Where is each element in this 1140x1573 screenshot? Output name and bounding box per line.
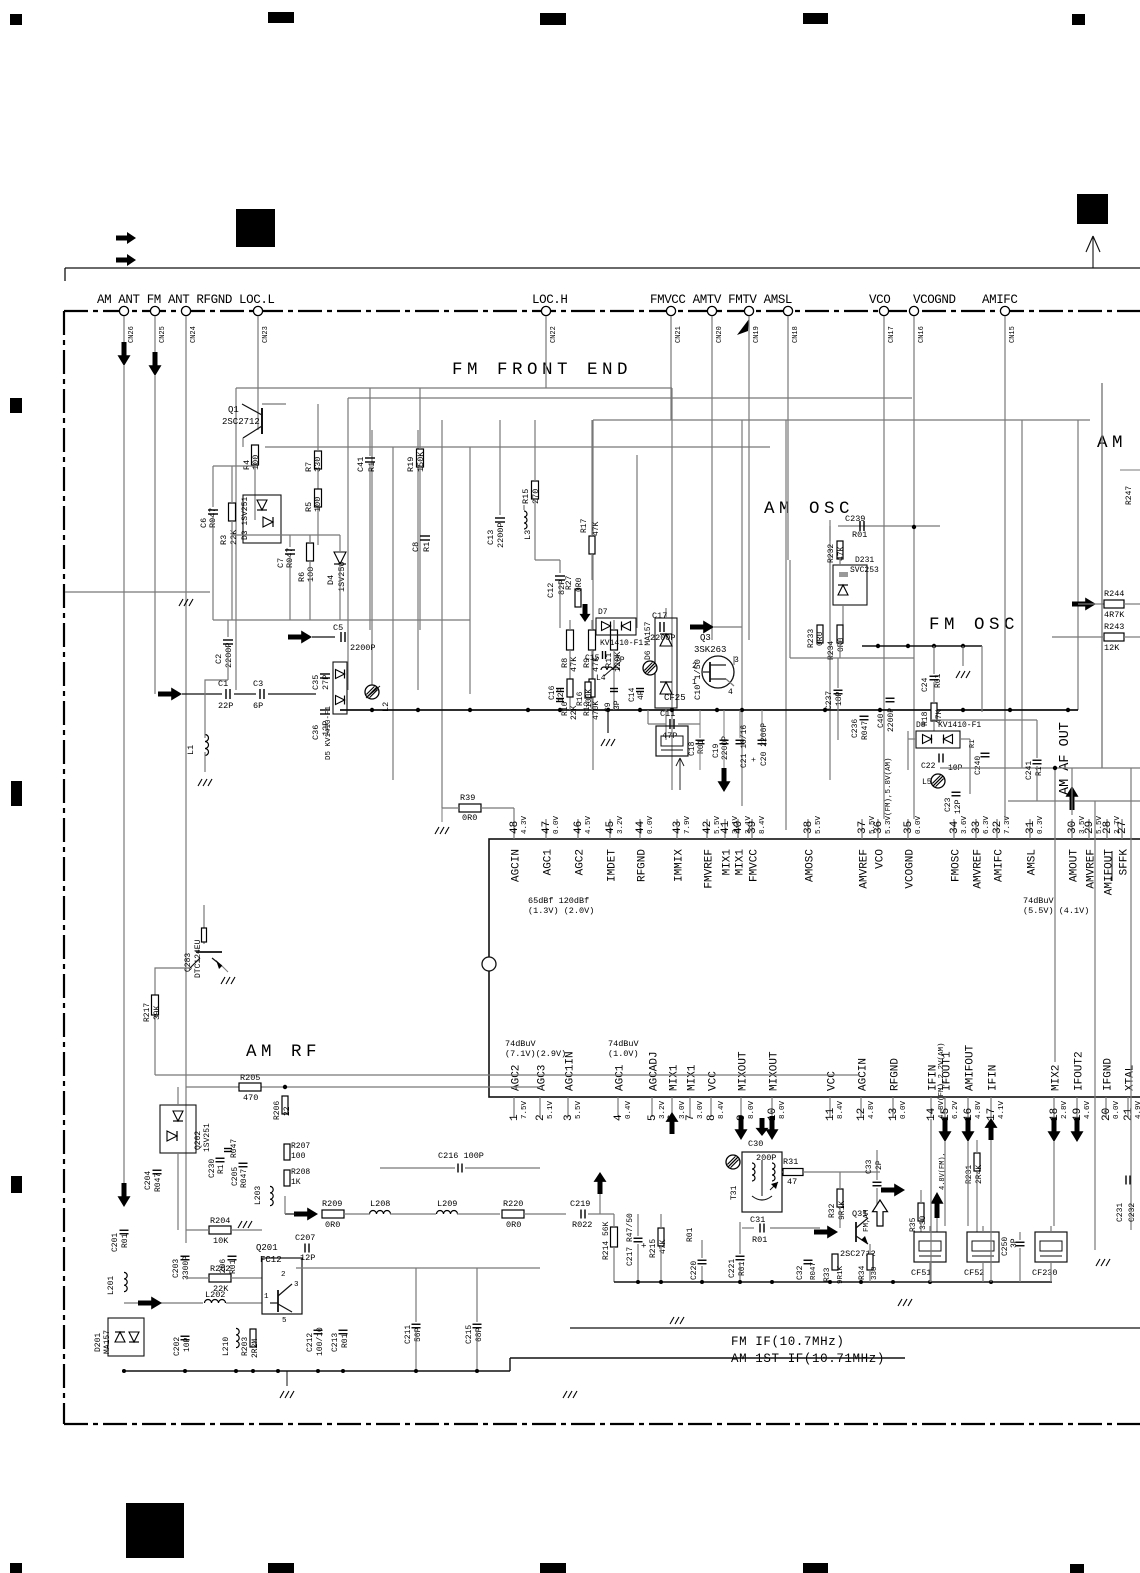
svg-text:C211: C211 — [404, 1325, 413, 1344]
svg-text:C31: C31 — [750, 1215, 765, 1225]
svg-text:C237: C237 — [825, 691, 834, 710]
svg-text:13: 13 — [888, 1108, 900, 1121]
svg-text:R1: R1 — [1035, 766, 1044, 776]
svg-text:C202: C202 — [173, 1337, 182, 1356]
svg-text:C231: C231 — [1116, 1203, 1125, 1222]
svg-text:L202: L202 — [205, 1290, 225, 1300]
svg-text:AMVREF: AMVREF — [1086, 849, 1098, 889]
svg-text:VCOGND: VCOGND — [913, 293, 956, 307]
svg-text:MIX1: MIX1 — [722, 849, 734, 876]
svg-text:L209: L209 — [437, 1199, 457, 1209]
svg-text:2200P: 2200P — [650, 633, 676, 643]
svg-text:28: 28 — [1102, 821, 1114, 834]
svg-text:AGCIN: AGCIN — [511, 849, 523, 882]
svg-text:T31: T31 — [730, 1185, 739, 1200]
svg-text:470: 470 — [243, 1093, 258, 1103]
svg-text:(7.1V)(2.9V): (7.1V)(2.9V) — [505, 1049, 566, 1059]
svg-text:4.6V: 4.6V — [1084, 1100, 1092, 1119]
svg-text:3SK263: 3SK263 — [694, 645, 726, 655]
svg-text:(1.3V) (2.0V): (1.3V) (2.0V) — [528, 906, 594, 916]
svg-text:3.2V: 3.2V — [617, 815, 625, 834]
svg-text:C3: C3 — [253, 679, 263, 689]
svg-text:C204: C204 — [144, 1171, 153, 1190]
svg-text:32: 32 — [992, 821, 1004, 834]
svg-text:47K: 47K — [837, 546, 846, 561]
svg-text:35: 35 — [903, 821, 915, 834]
svg-text:C24: C24 — [921, 677, 930, 692]
svg-text:11: 11 — [825, 1107, 837, 1121]
svg-text:C21 10/16: C21 10/16 — [740, 725, 749, 768]
svg-text:4.3V: 4.3V — [521, 815, 529, 834]
svg-text:L208: L208 — [370, 1199, 390, 1209]
svg-text:8.0V: 8.0V — [748, 1100, 756, 1119]
svg-text:R01: R01 — [697, 739, 706, 754]
svg-text:FMVCC: FMVCC — [749, 849, 761, 882]
svg-text:1: 1 — [692, 678, 697, 687]
svg-text:5.3V(FM),5.8V(AM): 5.3V(FM),5.8V(AM) — [885, 757, 893, 834]
svg-text:47K: 47K — [592, 521, 601, 536]
svg-text:CF51: CF51 — [911, 1268, 931, 1278]
svg-text:0.3V: 0.3V — [1037, 815, 1045, 834]
svg-text:18P: 18P — [835, 691, 844, 706]
svg-text:D3 1SV251: D3 1SV251 — [241, 497, 250, 540]
svg-text:L3: L3 — [523, 530, 533, 540]
svg-text:R01: R01 — [852, 530, 867, 540]
svg-text:R01: R01 — [686, 1227, 695, 1242]
svg-text:R214 56K: R214 56K — [602, 1221, 611, 1260]
svg-text:C41: C41 — [356, 457, 366, 472]
svg-text:IMMIX: IMMIX — [674, 849, 686, 882]
svg-text:C40: C40 — [877, 713, 886, 728]
svg-text:VCC: VCC — [708, 1071, 720, 1091]
svg-text:5.1V: 5.1V — [547, 1100, 555, 1119]
svg-text:7P: 7P — [615, 656, 625, 665]
svg-text:1: 1 — [509, 1114, 521, 1121]
svg-text:R202: R202 — [210, 1264, 230, 1274]
svg-text:C30: C30 — [748, 1139, 763, 1149]
svg-text:R209: R209 — [322, 1199, 342, 1209]
svg-text:30: 30 — [1067, 821, 1079, 834]
svg-text:8.4V: 8.4V — [837, 1100, 845, 1119]
svg-text:47: 47 — [787, 1177, 797, 1187]
svg-text:R047: R047 — [240, 1169, 249, 1188]
svg-text:3: 3 — [563, 1114, 575, 1121]
svg-text:C19: C19 — [712, 743, 721, 758]
svg-text:IFIN: IFIN — [988, 1065, 1000, 1091]
svg-text:0R0: 0R0 — [837, 637, 846, 652]
svg-text:8: 8 — [706, 1114, 718, 1121]
svg-text:AMSL: AMSL — [1027, 849, 1039, 875]
svg-text:65dBf 120dBf: 65dBf 120dBf — [528, 896, 589, 906]
svg-text:3P: 3P — [613, 700, 622, 710]
svg-text:2200P: 2200P — [224, 642, 234, 668]
svg-text:2200P: 2200P — [887, 708, 896, 732]
svg-text:2P: 2P — [875, 1160, 884, 1170]
svg-text:C215: C215 — [465, 1325, 474, 1344]
svg-text:R206: R206 — [273, 1101, 282, 1120]
svg-text:4.9V: 4.9V — [1135, 1100, 1140, 1119]
svg-text:L203: L203 — [254, 1186, 263, 1205]
svg-text:2.8V: 2.8V — [1061, 1100, 1069, 1119]
svg-text:C2: C2 — [214, 654, 224, 664]
svg-text:27P: 27P — [321, 675, 331, 690]
svg-text:C230: C230 — [208, 1159, 217, 1178]
svg-text:Q202: Q202 — [194, 1131, 203, 1150]
svg-text:MIX1: MIX1 — [735, 849, 747, 876]
svg-text:AM AF OUT: AM AF OUT — [1058, 722, 1073, 795]
svg-text:IFGND: IFGND — [1103, 1058, 1115, 1091]
svg-text:17: 17 — [986, 1108, 998, 1121]
svg-text:56P: 56P — [414, 1327, 423, 1342]
svg-text:D4: D4 — [326, 575, 336, 585]
svg-text:CN25: CN25 — [159, 326, 167, 343]
svg-text:0.0V: 0.0V — [647, 815, 655, 834]
svg-text:3: 3 — [294, 1281, 299, 1289]
svg-text:0.0V: 0.0V — [915, 815, 923, 834]
svg-text:3.2V: 3.2V — [659, 1100, 667, 1119]
svg-text:AGC1: AGC1 — [615, 1064, 627, 1091]
svg-text:6P: 6P — [253, 701, 263, 711]
svg-text:C36: C36 — [311, 725, 321, 740]
svg-text:(5.5V) (4.1V): (5.5V) (4.1V) — [1023, 906, 1089, 916]
svg-text:9R1K: 9R1K — [837, 1265, 845, 1284]
svg-text:7.9V: 7.9V — [684, 815, 692, 834]
svg-text:R1: R1 — [367, 462, 377, 472]
svg-text:R01: R01 — [738, 1261, 747, 1276]
svg-text:AGC2: AGC2 — [575, 849, 587, 875]
svg-text:MIXOUT: MIXOUT — [769, 1051, 781, 1091]
svg-text:IFOUT1: IFOUT1 — [942, 1051, 954, 1091]
svg-text:C221: C221 — [728, 1259, 737, 1278]
svg-text:VCO: VCO — [875, 849, 887, 869]
svg-text:4.1V: 4.1V — [998, 1100, 1006, 1119]
svg-text:2: 2 — [281, 1271, 286, 1279]
svg-text:43: 43 — [672, 821, 684, 834]
svg-text:3: 3 — [734, 656, 739, 665]
svg-text:C217 R47/50: C217 R47/50 — [626, 1213, 635, 1266]
svg-text:R1: R1 — [422, 542, 432, 552]
svg-text:IFOUT2: IFOUT2 — [1074, 1051, 1086, 1091]
svg-text:R215: R215 — [649, 1239, 658, 1258]
svg-text:FMOSC: FMOSC — [951, 849, 963, 882]
svg-text:45: 45 — [605, 821, 617, 834]
svg-text:C212: C212 — [306, 1333, 315, 1352]
svg-text:C220: C220 — [690, 1261, 699, 1280]
svg-text:CF230: CF230 — [1032, 1268, 1058, 1278]
svg-text:10P: 10P — [183, 1337, 192, 1352]
svg-text:MIX2: MIX2 — [1051, 1065, 1063, 1091]
svg-text:Q1: Q1 — [228, 405, 239, 415]
svg-text:2R4K: 2R4K — [975, 1165, 984, 1184]
svg-text:0R0: 0R0 — [462, 813, 477, 823]
svg-text:L210: L210 — [222, 1337, 231, 1356]
svg-text:46: 46 — [573, 821, 585, 834]
svg-text:C216 100P: C216 100P — [438, 1151, 484, 1161]
svg-text:C16: C16 — [548, 685, 557, 700]
svg-text:12P: 12P — [300, 1253, 315, 1263]
svg-text:R27: R27 — [565, 575, 574, 590]
svg-text:(1.0V): (1.0V) — [608, 1049, 639, 1059]
svg-text:22P: 22P — [218, 701, 233, 711]
svg-text:R35: R35 — [909, 1217, 918, 1232]
svg-text:100: 100 — [251, 455, 261, 470]
svg-text:74dBuV: 74dBuV — [1023, 896, 1055, 906]
svg-text:R33: R33 — [823, 1267, 832, 1282]
svg-text:CF52: CF52 — [964, 1268, 984, 1278]
svg-text:5: 5 — [647, 1114, 659, 1121]
svg-text:330: 330 — [919, 1215, 928, 1230]
svg-text:AMOSC: AMOSC — [805, 849, 817, 882]
svg-text:C35: C35 — [311, 675, 321, 690]
svg-text:VCO: VCO — [869, 293, 890, 307]
svg-text:39K: 39K — [153, 1005, 162, 1020]
svg-text:48: 48 — [509, 821, 521, 834]
svg-text:40: 40 — [733, 821, 745, 834]
svg-text:C205: C205 — [231, 1167, 240, 1186]
svg-text:1SV251: 1SV251 — [203, 1123, 212, 1152]
svg-text:C219: C219 — [570, 1199, 590, 1209]
svg-text:AM 1ST IF(10.71MHz): AM 1ST IF(10.71MHz) — [731, 1352, 885, 1366]
svg-text:C5: C5 — [333, 623, 343, 633]
svg-text:42: 42 — [702, 821, 714, 834]
svg-text:0.0V: 0.0V — [1113, 1100, 1121, 1119]
svg-text:CN19: CN19 — [753, 326, 761, 343]
svg-text:1SV250: 1SV250 — [337, 561, 347, 592]
svg-text:R220: R220 — [503, 1199, 523, 1209]
svg-text:C1: C1 — [218, 679, 228, 689]
svg-text:3300P: 3300P — [182, 1256, 191, 1280]
svg-text:FMVCC AMTV FMTV AMSL: FMVCC AMTV FMTV AMSL — [650, 293, 792, 307]
svg-text:100K: 100K — [585, 689, 594, 708]
svg-text:34: 34 — [949, 820, 961, 834]
svg-text:330: 330 — [871, 1266, 879, 1280]
svg-text:12K: 12K — [1104, 643, 1120, 653]
svg-text:R207: R207 — [291, 1142, 310, 1151]
svg-text:22K: 22K — [229, 529, 239, 545]
svg-text:R01: R01 — [752, 1235, 767, 1245]
svg-text:FM,AM: FM,AM — [863, 1209, 871, 1232]
svg-text:AMIFOUT: AMIFOUT — [965, 1044, 977, 1091]
svg-text:33: 33 — [971, 821, 983, 834]
svg-text:R34: R34 — [858, 1265, 867, 1280]
svg-text:R234: R234 — [827, 641, 836, 660]
svg-text:CN24: CN24 — [190, 326, 198, 343]
svg-text:C33: C33 — [865, 1159, 874, 1174]
svg-text:L201: L201 — [107, 1276, 116, 1295]
svg-text:R15: R15 — [521, 489, 531, 504]
svg-text:12P: 12P — [954, 799, 963, 814]
svg-text:4: 4 — [613, 1114, 625, 1121]
svg-text:R047: R047 — [154, 1173, 163, 1192]
svg-text:C18: C18 — [688, 741, 697, 756]
svg-text:8.0V: 8.0V — [779, 1100, 787, 1119]
svg-text:C32: C32 — [796, 1265, 805, 1280]
svg-text:0R0: 0R0 — [325, 1220, 340, 1230]
svg-text:R32: R32 — [828, 1203, 837, 1218]
svg-text:R17: R17 — [580, 518, 589, 533]
svg-text:AM RF: AM RF — [246, 1042, 321, 1062]
svg-text:4.8V(FM),: 4.8V(FM), — [939, 1152, 947, 1190]
svg-text:D231: D231 — [855, 556, 874, 565]
svg-text:IMDET: IMDET — [607, 849, 619, 882]
svg-text:C241: C241 — [1025, 761, 1034, 780]
svg-text:FM IF(10.7MHz): FM IF(10.7MHz) — [731, 1335, 844, 1349]
svg-text:R231: R231 — [965, 1165, 974, 1184]
svg-text:MA157: MA157 — [103, 1330, 112, 1354]
svg-text:+: + — [750, 757, 759, 762]
svg-text:L5: L5 — [922, 778, 932, 787]
svg-text:R39: R39 — [460, 793, 475, 803]
svg-text:100: 100 — [313, 497, 323, 512]
svg-text:7.5V: 7.5V — [521, 1100, 529, 1119]
svg-text:7: 7 — [685, 1114, 697, 1121]
svg-text:2: 2 — [692, 662, 697, 671]
svg-text:2200P: 2200P — [350, 643, 376, 653]
svg-text:2SC2712: 2SC2712 — [222, 417, 260, 427]
svg-text:2: 2 — [535, 1114, 547, 1121]
svg-text:R208: R208 — [291, 1168, 310, 1177]
svg-text:RFGND: RFGND — [637, 849, 649, 882]
svg-text:C14: C14 — [628, 687, 637, 702]
svg-text:R31: R31 — [783, 1157, 798, 1167]
svg-text:20: 20 — [1101, 1108, 1113, 1121]
svg-text:C232: C232 — [1128, 1203, 1137, 1222]
svg-text:4R7K: 4R7K — [1104, 610, 1125, 620]
svg-text:FC12: FC12 — [260, 1255, 282, 1265]
svg-text:29: 29 — [1084, 821, 1096, 834]
svg-text:AMIFC: AMIFC — [982, 293, 1018, 307]
svg-text:4.8V: 4.8V — [975, 1100, 983, 1119]
svg-text:L1: L1 — [186, 745, 196, 755]
svg-text:21: 21 — [1123, 1107, 1135, 1121]
svg-text:R1: R1 — [217, 1164, 226, 1174]
svg-text:6.3V: 6.3V — [983, 815, 991, 834]
svg-text:100: 100 — [291, 1152, 306, 1161]
svg-text:C13: C13 — [486, 530, 496, 545]
svg-text:8.4V: 8.4V — [759, 815, 767, 834]
svg-text:1: 1 — [264, 1293, 269, 1301]
svg-text:AMIFC: AMIFC — [994, 849, 1006, 882]
svg-text:VCOGND: VCOGND — [905, 849, 917, 889]
svg-text:AMVREF: AMVREF — [973, 849, 985, 889]
svg-text:R204: R204 — [210, 1216, 230, 1226]
svg-text:AGC1: AGC1 — [543, 849, 555, 876]
svg-text:9R1K: 9R1K — [838, 1201, 847, 1220]
svg-text:C240: C240 — [974, 756, 983, 775]
svg-text:KV1410-F1: KV1410-F1 — [938, 721, 981, 730]
svg-text:CN20: CN20 — [716, 326, 724, 343]
svg-text:AM DET: AM DET — [1097, 433, 1140, 453]
svg-text:C236: C236 — [851, 719, 860, 738]
svg-text:L2: L2 — [381, 702, 391, 712]
svg-text:R217: R217 — [143, 1003, 152, 1022]
svg-text:R244: R244 — [1104, 589, 1124, 599]
svg-text:100: 100 — [306, 567, 316, 582]
svg-text:41: 41 — [720, 820, 732, 834]
svg-text:AMVREF: AMVREF — [859, 849, 871, 889]
svg-text:R01: R01 — [121, 1233, 130, 1248]
svg-text:C23: C23 — [944, 797, 953, 812]
svg-text:AGCADJ: AGCADJ — [649, 1051, 661, 1091]
svg-text:CN17: CN17 — [888, 326, 896, 343]
svg-text:CN21: CN21 — [675, 326, 683, 343]
svg-text:2200P: 2200P — [721, 736, 730, 760]
svg-text:IFIN: IFIN — [928, 1065, 940, 1091]
svg-text:2200P: 2200P — [496, 522, 506, 548]
svg-text:47: 47 — [541, 821, 553, 834]
svg-text:8.4V: 8.4V — [718, 1100, 726, 1119]
svg-text:C8: C8 — [411, 542, 421, 552]
svg-text:AM OSC: AM OSC — [764, 499, 854, 519]
svg-text:44: 44 — [635, 820, 647, 834]
svg-text:3.6V: 3.6V — [961, 815, 969, 834]
svg-text:5.5V: 5.5V — [815, 815, 823, 834]
svg-text:CN26: CN26 — [128, 326, 136, 343]
svg-text:CN16: CN16 — [918, 326, 926, 343]
svg-text:R247: R247 — [1125, 486, 1134, 505]
svg-text:68P: 68P — [475, 1327, 484, 1342]
svg-text:R022: R022 — [572, 1220, 592, 1230]
svg-text:6.2V: 6.2V — [952, 1100, 960, 1119]
svg-text:74dBuV: 74dBuV — [505, 1039, 537, 1049]
svg-text:AM ANT FM ANT RFGND LOC.L: AM ANT FM ANT RFGND LOC.L — [97, 293, 275, 307]
svg-text:R047: R047 — [810, 1262, 818, 1280]
svg-text:R16: R16 — [576, 691, 585, 706]
svg-text:SFFK: SFFK — [1119, 849, 1131, 876]
svg-text:14: 14 — [926, 1107, 938, 1121]
svg-text:4.8V: 4.8V — [868, 1100, 876, 1119]
svg-text:MIXOUT: MIXOUT — [738, 1051, 750, 1091]
svg-text:KV1410-F1: KV1410-F1 — [600, 639, 643, 648]
svg-text:37: 37 — [857, 821, 869, 834]
svg-text:2R2M: 2R2M — [251, 1339, 260, 1358]
svg-text:MIX1: MIX1 — [669, 1064, 681, 1091]
svg-text:200P: 200P — [756, 1153, 776, 1163]
svg-text:5: 5 — [282, 1317, 287, 1325]
svg-text:C207: C207 — [295, 1233, 315, 1243]
svg-text:C11: C11 — [660, 709, 675, 719]
svg-text:FMVREF: FMVREF — [704, 849, 716, 889]
svg-text:Q3: Q3 — [700, 633, 711, 643]
svg-text:38: 38 — [803, 821, 815, 834]
svg-text:CN23: CN23 — [262, 326, 270, 343]
svg-text:C213: C213 — [331, 1333, 340, 1352]
svg-text:C203: C203 — [172, 1259, 181, 1278]
svg-text:D5 KV1410-F1: D5 KV1410-F1 — [325, 705, 333, 760]
svg-text:C15: C15 — [585, 654, 600, 663]
svg-text:R047: R047 — [861, 721, 870, 740]
svg-text:AMOUT: AMOUT — [1069, 849, 1081, 882]
svg-text:3.0V: 3.0V — [697, 1100, 705, 1119]
svg-text:C12: C12 — [546, 583, 556, 598]
svg-text:0R0: 0R0 — [506, 1220, 521, 1230]
svg-text:R233: R233 — [807, 629, 816, 648]
svg-text:C9: C9 — [604, 702, 613, 712]
svg-text:10K: 10K — [213, 1236, 229, 1246]
svg-text:0R0: 0R0 — [575, 577, 584, 592]
svg-text:FM FRONT END: FM FRONT END — [452, 360, 632, 380]
svg-text:D8: D8 — [916, 721, 926, 730]
svg-text:74dBuV: 74dBuV — [608, 1039, 640, 1049]
svg-text:22: 22 — [283, 1106, 292, 1116]
svg-text:0.0V: 0.0V — [553, 815, 561, 834]
svg-text:Q201: Q201 — [256, 1243, 278, 1253]
svg-text:CN22: CN22 — [550, 326, 558, 343]
svg-text:AMIFOUT: AMIFOUT — [1104, 849, 1116, 896]
svg-text:D201: D201 — [94, 1333, 103, 1352]
svg-text:LOC.H: LOC.H — [532, 293, 568, 307]
svg-text:R10: R10 — [561, 701, 570, 716]
